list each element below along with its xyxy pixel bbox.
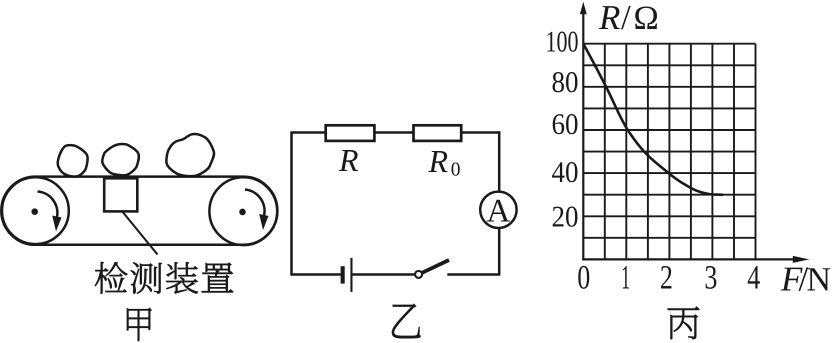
caption 甲 bbox=[127, 308, 152, 341]
wire right side bbox=[498, 131, 501, 275]
svg-text:0: 0 bbox=[451, 160, 461, 181]
caption 丙 bbox=[668, 307, 700, 339]
caption 乙 bbox=[392, 304, 421, 338]
pulley right axle dot bbox=[239, 209, 246, 216]
svg-text:4: 4 bbox=[747, 260, 760, 297]
svg-text:R: R bbox=[338, 142, 359, 178]
wire left side bbox=[290, 133, 293, 275]
pulley left bbox=[2, 177, 69, 244]
svg-text:N: N bbox=[807, 262, 832, 299]
switch pivot bbox=[415, 271, 422, 278]
wire bottom segments bbox=[290, 273, 499, 276]
resistor R0 bbox=[414, 125, 462, 141]
svg-text:0: 0 bbox=[577, 260, 590, 297]
rock 3 on belt bbox=[166, 134, 214, 176]
graph grid bbox=[583, 44, 755, 260]
pulley left axle dot bbox=[31, 208, 38, 215]
detection device box bbox=[104, 178, 137, 211]
battery negative plate bbox=[341, 266, 345, 283]
leader line to label bbox=[122, 211, 157, 254]
svg-text:1: 1 bbox=[621, 260, 630, 297]
switch blade bbox=[422, 260, 449, 273]
resistor R bbox=[326, 125, 375, 141]
x axis F bbox=[582, 258, 796, 260]
battery positive plate bbox=[350, 258, 352, 292]
svg-text:40: 40 bbox=[552, 156, 579, 189]
svg-text:60: 60 bbox=[552, 108, 579, 141]
pulley right bbox=[209, 177, 277, 245]
conveyor belt bbox=[1, 177, 277, 245]
label char 装 bbox=[166, 262, 198, 293]
svg-text:3: 3 bbox=[704, 260, 717, 297]
label char 测 bbox=[131, 263, 162, 294]
svg-text:80: 80 bbox=[552, 66, 579, 99]
svg-text:Ω: Ω bbox=[634, 0, 659, 37]
svg-text:A: A bbox=[486, 194, 510, 230]
label char 置 bbox=[202, 263, 233, 292]
rock 1 on belt bbox=[58, 145, 88, 176]
pulley right rotation arrow bbox=[245, 190, 269, 231]
wire top (3 segments around resistors) bbox=[290, 131, 500, 134]
svg-text:R: R bbox=[598, 0, 620, 37]
svg-text:100: 100 bbox=[546, 26, 579, 59]
y axis R bbox=[582, 9, 584, 261]
ammeter U1 bbox=[480, 192, 516, 228]
label char 检 bbox=[95, 262, 127, 294]
pulley left rotation arrow bbox=[38, 192, 62, 232]
svg-text:/: / bbox=[621, 0, 631, 37]
svg-text:R: R bbox=[428, 143, 449, 179]
svg-text:2: 2 bbox=[660, 260, 673, 297]
svg-text:20: 20 bbox=[552, 201, 579, 234]
rock 2 on belt bbox=[102, 144, 139, 175]
R(F) curve bbox=[583, 44, 723, 195]
